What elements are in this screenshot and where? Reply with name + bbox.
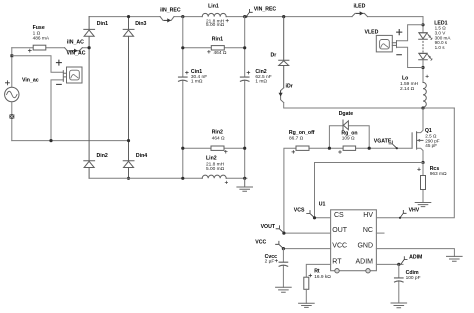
pin pad U1 bottom left <box>335 269 339 273</box>
svg-text:86.7 Ω: 86.7 Ω <box>289 135 304 141</box>
wire bottom rail <box>89 177 247 179</box>
wire LED column bottom <box>422 60 424 83</box>
wire VLED minus lead <box>397 47 424 67</box>
capacitor Cvcc <box>265 249 288 288</box>
svg-text:VLED: VLED <box>365 30 379 36</box>
diode Din1 <box>84 17 95 161</box>
svg-text:Din1: Din1 <box>97 21 108 27</box>
capacitor Cdim <box>395 264 421 303</box>
svg-text:ADIM: ADIM <box>409 255 422 261</box>
svg-text:5.00 mΩ: 5.00 mΩ <box>206 166 225 172</box>
wire LED dotted continuation <box>422 41 424 52</box>
junction Cin2 column top rail <box>243 15 246 18</box>
svg-text:VIN_AC: VIN_AC <box>67 50 86 56</box>
svg-text:HV: HV <box>363 212 373 219</box>
svg-text:1 Ω: 1 Ω <box>33 31 41 37</box>
svg-text:Lo: Lo <box>402 76 408 82</box>
svg-text:Din2: Din2 <box>97 153 108 159</box>
svg-text:2.14 Ω: 2.14 Ω <box>400 86 415 92</box>
junction Din3 top rail <box>127 15 130 18</box>
junction Din3 Din4 AC node <box>127 139 130 142</box>
wire VCC pin <box>283 248 330 250</box>
svg-text:2 µF: 2 µF <box>265 258 275 264</box>
wire AC return rail to bridge <box>12 140 129 142</box>
probe hook ADIM <box>401 255 422 264</box>
svg-text:45 pF: 45 pF <box>425 143 437 148</box>
svg-text:Rin1: Rin1 <box>212 36 223 42</box>
wire probe positive tap <box>12 56 63 72</box>
junction VLED minus tap <box>421 66 424 69</box>
resistor Rg_on <box>339 130 358 153</box>
marker earth reference on source wire <box>9 114 14 119</box>
diode Dr <box>279 17 289 88</box>
capacitor Cin2 <box>240 69 271 85</box>
resistor Rcs <box>418 163 447 203</box>
wire RT pin <box>306 264 330 277</box>
wire probe negative return <box>51 80 63 141</box>
current probe iIN_REC <box>160 8 181 22</box>
svg-text:963 mΩ: 963 mΩ <box>430 171 447 177</box>
probe hook VIN_REC <box>245 7 276 18</box>
wire ADIM pin <box>376 263 403 265</box>
wire NC stub <box>376 232 384 234</box>
svg-text:464 Ω: 464 Ω <box>214 50 227 56</box>
polarity marks probe VIN_AC <box>56 60 61 84</box>
junction gate branch left <box>328 147 331 150</box>
junction Cin1 column top rail <box>181 15 184 18</box>
svg-text:Lin1: Lin1 <box>208 4 219 10</box>
ground GND pin <box>447 256 463 261</box>
svg-text:Rg_on_off: Rg_on_off <box>289 130 315 136</box>
probe hook VCS <box>294 207 315 217</box>
junction Rin2 left <box>181 147 184 150</box>
junction Din1 Din2 AC node <box>88 46 91 49</box>
junction Cin1 bottom rail <box>181 177 184 180</box>
Q1 values <box>425 134 439 148</box>
junction Dr column top rail <box>282 15 285 18</box>
svg-text:1 mΩ: 1 mΩ <box>255 79 267 85</box>
wire CS sense run <box>315 163 424 218</box>
junction CS node <box>313 216 316 219</box>
fuse Fuse <box>28 25 50 52</box>
wire switch node horizontal <box>284 103 455 108</box>
current probe iLED <box>352 3 368 16</box>
wire GND pin <box>376 249 454 257</box>
junction OUT gate tap <box>282 232 285 235</box>
svg-text:Vin_ac: Vin_ac <box>22 77 39 83</box>
junction Rin1 left <box>181 46 184 49</box>
svg-text:OUT: OUT <box>332 227 348 234</box>
wire OUT pin <box>284 232 331 234</box>
wire Cin2 column <box>244 17 246 179</box>
junction Cdim tap <box>397 263 400 266</box>
svg-text:VOUT: VOUT <box>261 224 276 230</box>
pin pad U1 bottom right <box>366 269 370 273</box>
junction Rin2 right <box>243 147 246 150</box>
diode Dgate <box>343 120 348 130</box>
svg-text:Dr: Dr <box>271 52 277 58</box>
wire gate drive from OUT <box>284 133 412 233</box>
ground Cvcc <box>276 287 292 292</box>
svg-text:VGATE: VGATE <box>374 139 392 145</box>
wire source positive column <box>11 48 13 88</box>
junction VLED plus tap <box>421 23 424 26</box>
inductor Lo <box>400 75 428 108</box>
inductor Lin2 <box>202 156 228 184</box>
voltmeter VLED probe body <box>376 35 396 52</box>
svg-text:NC: NC <box>363 227 373 234</box>
ground input rail <box>237 178 253 191</box>
svg-text:iDr: iDr <box>286 84 293 90</box>
probe hook VCC <box>255 239 283 248</box>
resistor Rg_on_off <box>289 130 315 153</box>
svg-text:109 Ω: 109 Ω <box>342 135 355 141</box>
LED LED1 first <box>419 33 433 40</box>
diode Din3 <box>123 17 134 161</box>
svg-text:5.00 mΩ: 5.00 mΩ <box>206 22 225 28</box>
diode Din2 <box>84 161 95 179</box>
junction switch node <box>421 106 424 109</box>
svg-text:Cdim: Cdim <box>406 270 419 276</box>
LED LED1 second <box>419 53 433 60</box>
svg-text:486 mA: 486 mA <box>33 36 50 42</box>
transistor Q1 <box>412 132 423 163</box>
inductor Lin1 <box>202 4 228 29</box>
wire right rail to HV <box>376 108 454 218</box>
svg-text:ADIM: ADIM <box>356 258 374 265</box>
junction Cvcc tap <box>282 247 285 250</box>
svg-text:Fuse: Fuse <box>33 25 45 31</box>
wire Cin1 column <box>182 17 184 179</box>
wire source bottom column <box>11 102 13 141</box>
svg-text:1 mΩ: 1 mΩ <box>191 79 203 85</box>
wire Q1 drain <box>417 108 423 133</box>
ground Rcs <box>415 203 431 207</box>
junction Rin1 right <box>243 46 246 49</box>
resistor Rin1 <box>183 36 245 56</box>
svg-text:Din3: Din3 <box>135 21 146 27</box>
svg-text:RT: RT <box>332 258 342 265</box>
svg-text:U1: U1 <box>319 201 326 207</box>
svg-text:VIN_REC: VIN_REC <box>254 7 277 13</box>
svg-text:464 Ω: 464 Ω <box>212 136 225 142</box>
svg-text:100 pF: 100 pF <box>406 275 421 281</box>
svg-text:VCC: VCC <box>255 239 266 245</box>
svg-text:VHV: VHV <box>409 207 420 213</box>
current probe iIN_AC <box>65 39 85 52</box>
wire fuse input top-left <box>12 47 89 49</box>
voltage source Vin_ac <box>5 77 39 101</box>
probe hook VHV <box>399 207 420 219</box>
junction Cin2 bottom rail <box>243 177 246 180</box>
svg-text:VCS: VCS <box>294 207 305 213</box>
polarity marks probe VLED <box>397 30 402 55</box>
probe hook VGATE <box>374 139 398 150</box>
junction source plus node <box>10 54 13 57</box>
svg-text:Din4: Din4 <box>136 153 147 159</box>
svg-text:iIN_AC: iIN_AC <box>67 39 84 45</box>
junction Q1 source CS tap <box>421 161 424 164</box>
svg-text:CS: CS <box>334 212 344 219</box>
diode Din4 <box>123 161 134 179</box>
wire VLED plus lead <box>397 25 424 41</box>
junction gate branch right <box>368 147 371 150</box>
wire bridge top rail <box>89 16 423 18</box>
probe hook VOUT <box>261 224 284 233</box>
wire Dgate bypass branch <box>329 126 369 148</box>
svg-text:iIN_REC: iIN_REC <box>160 8 181 14</box>
svg-text:Lin2: Lin2 <box>206 156 217 162</box>
LED1 values <box>435 26 452 50</box>
svg-text:GND: GND <box>357 243 373 250</box>
svg-text:16.9 kΩ: 16.9 kΩ <box>314 274 331 280</box>
capacitor Cin1 <box>179 69 208 85</box>
IC U1 body <box>319 201 377 270</box>
current probe iDr <box>279 84 293 103</box>
svg-text:Dgate: Dgate <box>339 111 354 117</box>
resistor Rin2 <box>183 129 245 153</box>
voltmeter VIN_AC probe body <box>63 67 82 83</box>
svg-text:Rin2: Rin2 <box>212 129 223 135</box>
svg-text:iLED: iLED <box>354 3 366 9</box>
resistor Rt <box>304 269 331 304</box>
svg-text:1.0 s: 1.0 s <box>435 45 446 50</box>
junction Din4 bottom rail <box>127 177 130 180</box>
wire LED column top <box>422 17 424 33</box>
junction probe return on rail <box>49 139 52 142</box>
svg-text:VCC: VCC <box>332 243 347 250</box>
svg-text:Rt: Rt <box>314 269 320 275</box>
ground Cdim <box>391 303 407 308</box>
ground Rt <box>299 303 315 307</box>
